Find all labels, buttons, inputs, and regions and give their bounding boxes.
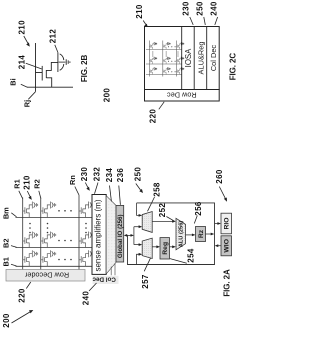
arrow 210 [27,191,30,197]
svg-text:FIG. 2B: FIG. 2B [80,55,89,83]
wire mux258 to ALU [152,220,173,222]
pointer 257 [144,258,150,272]
cell R1/B1 [23,250,38,266]
ground bar 3 [69,61,71,63]
cell r3c3 [176,67,184,74]
bit line B1 [16,265,93,267]
vertical dots Rn col [85,223,87,234]
pointer 230 [190,17,193,25]
ground bar 2 [67,60,69,63]
cell r2c1 [149,57,157,64]
funnel lower wires [111,263,115,275]
svg-text:236: 236 [116,168,125,183]
pointer Bi [21,84,28,87]
svg-text:Col Dec: Col Dec [92,276,116,283]
Global IO box 236 [116,205,124,262]
wire mux257 to Reg [152,246,157,248]
svg-text:200: 200 [2,313,11,328]
cell Rn/B2 [79,232,94,248]
mux 258 (trapezoid) [142,212,152,233]
pointer 214 [26,63,42,69]
row line Rj (vertical) [35,43,37,92]
pointer 232 [95,183,99,194]
svg-text:256: 256 [194,201,203,216]
svg-text:ALU (256): ALU (256) [179,221,185,248]
svg-text:210: 210 [23,175,32,190]
ellipsis dots B2 row [58,240,72,242]
svg-text:210: 210 [17,20,26,35]
vertical dots R1 col [29,223,31,234]
pointer 220 [159,102,164,110]
ground lead [59,61,66,63]
cell r2c3 [176,57,184,64]
pointer 240 [89,283,97,291]
svg-text:WIO: WIO [224,239,231,253]
pointer 236 [119,186,121,205]
svg-text:Bi: Bi [9,78,18,85]
register Reg 254 [160,238,170,259]
svg-text:Global IO (256): Global IO (256) [117,214,124,258]
mux 257 (trapezoid) [142,238,152,258]
svg-text:260: 260 [215,169,224,184]
pointer Bm [11,213,16,217]
cell r1c2 [163,42,171,49]
svg-text:B1: B1 [1,257,10,266]
capacitor 212 straight plate [57,52,59,72]
pointer 256 [194,216,197,224]
cell Rn/B1 [79,250,94,266]
ellipsis dots B1 row [58,259,72,261]
transistor 214 gate lead [36,72,43,74]
top hook wire to mux 258 [137,203,140,216]
ellipsis dots row3 [168,71,176,72]
pointer 254 [170,259,187,264]
pointer R2 [39,191,41,199]
cell r3c2 [163,67,171,74]
wire WIO to block edge [217,245,221,247]
wire Reg to ALU [170,246,174,248]
ground bar 1 [65,59,67,65]
svg-text:212: 212 [49,29,58,44]
svg-text:Bm: Bm [1,207,10,219]
svg-text:230: 230 [80,167,89,182]
svg-text:257: 257 [141,274,150,289]
pointer 234 [110,186,112,202]
svg-text:214: 214 [18,55,27,70]
svg-text:Reg: Reg [162,242,169,255]
funnel 234 (hatched) [106,196,116,274]
svg-text:250: 250 [134,167,143,182]
ellipsis dots row2 [168,61,176,62]
svg-text:sense amplifiers (m): sense amplifiers (m) [94,199,103,271]
svg-text:200: 200 [102,88,111,103]
svg-text:IOSA: IOSA [184,48,193,67]
pointer 212 [55,45,58,53]
arrow from label 210 to cell [24,36,29,44]
pointer Rn [75,187,79,195]
vertical dots col3 [177,51,178,56]
bit line Bm [16,217,93,219]
branch to mux 258 [134,226,140,228]
transistor 214 source leg to bit line [46,78,51,87]
svg-text:220: 220 [149,109,158,124]
svg-text:B2: B2 [1,238,10,247]
ellipsis dots Bm row [58,210,72,212]
cell R2/Bm [41,202,56,218]
vertical dots R2 col [47,223,49,234]
Col Dec divider [206,27,208,90]
bit line Bi (horizontal) [27,86,73,88]
transistor 214 gate bar [41,66,43,81]
svg-text:254: 254 [187,248,196,263]
pointer B2 [11,246,17,248]
svg-text:234: 234 [105,168,114,183]
Row Dec box [145,90,220,102]
arrow 200 [12,312,31,323]
pointer 240 [215,17,218,25]
cell R2/B1 [41,250,56,266]
pointer B1 [11,264,17,266]
svg-text:258: 258 [153,182,162,197]
cell r3c1 [149,67,157,74]
input bus [133,227,135,245]
row line R2 [40,198,42,270]
wire Rz to block edge [206,233,212,235]
svg-text:Rj: Rj [23,100,32,107]
svg-text:220: 220 [18,288,27,303]
svg-text:Rz: Rz [198,229,205,238]
cell r1c1 [149,42,157,49]
cell R1/B2 [23,232,38,248]
cell Rn/Bm [79,202,94,218]
bit line 1 [146,48,182,50]
bottom feedback hook to mux 257 [137,254,140,264]
row line 3 [175,41,177,77]
svg-text:R2: R2 [33,179,42,188]
ALU 252 (trapezoid) [176,218,186,250]
pointer 252 [166,217,174,222]
register Rz 256 [196,227,206,242]
wire block edge to RIO [215,223,219,225]
svg-text:230: 230 [182,1,191,16]
branch to mux 257 [134,244,140,246]
arrow 250 [136,184,141,191]
row line Rn [78,195,80,270]
ellipsis dots row1 [168,46,176,47]
wire ALU to Rz [186,234,194,236]
svg-text:ALU&Reg: ALU&Reg [196,42,205,75]
vertical dots col1 [152,51,153,56]
cell r1c3 [176,42,184,49]
cell R1/Bm [23,202,38,218]
pointer 220 [26,282,31,289]
arrow 210 to chip outline [143,21,146,26]
arrow 230 [85,183,88,189]
IOSA divider [181,27,183,90]
bit line 3 [146,74,182,76]
pointer 258 [148,197,155,211]
WIO box [221,236,232,256]
bit line 2 [146,63,182,65]
transistor 214 channel bar [45,70,47,78]
svg-text:RIO: RIO [224,217,231,229]
pointer R1 [19,191,23,199]
svg-text:FIG. 2C: FIG. 2C [229,53,238,81]
svg-text:240: 240 [82,291,91,306]
row line 2 [162,41,164,77]
capacitor 212 curved plate (upper arc) [60,54,64,60]
svg-text:Col Dec: Col Dec [209,45,218,72]
svg-text:240: 240 [210,1,219,16]
svg-text:210: 210 [135,4,144,19]
Col Dec band 240 [93,276,119,284]
pointer Rj [28,92,35,100]
row line R1 [22,198,24,270]
svg-text:Row Dec: Row Dec [167,90,197,99]
svg-text:R1: R1 [13,179,22,188]
svg-text:252: 252 [158,203,167,218]
chip outline box [145,27,220,90]
double arrow Global IO to ALU block [125,234,132,236]
svg-text:Row Decoder: Row Decoder [24,271,69,280]
Row Decoder box 220 [6,270,85,282]
sense amplifiers box 232 [92,195,106,275]
ALU&Reg divider [193,27,195,90]
svg-text:FIG. 2A: FIG. 2A [222,269,231,297]
cell r2c2 [163,57,171,64]
ALU block 250 outline [128,203,215,265]
RIO box [221,213,232,234]
arrow 260 [219,187,226,200]
row line 1 [148,41,150,77]
cell R2/B2 [41,232,56,248]
capacitor 212 curved plate (lower arc) [60,64,64,70]
svg-text:Rn: Rn [68,175,77,185]
svg-text:232: 232 [93,167,102,182]
vertical dots col2 [166,51,167,56]
transistor 214 drain leg to capacitor [46,62,58,70]
bit line B2 [16,247,93,249]
svg-text:250: 250 [196,1,205,16]
pointer 250 [204,17,206,25]
